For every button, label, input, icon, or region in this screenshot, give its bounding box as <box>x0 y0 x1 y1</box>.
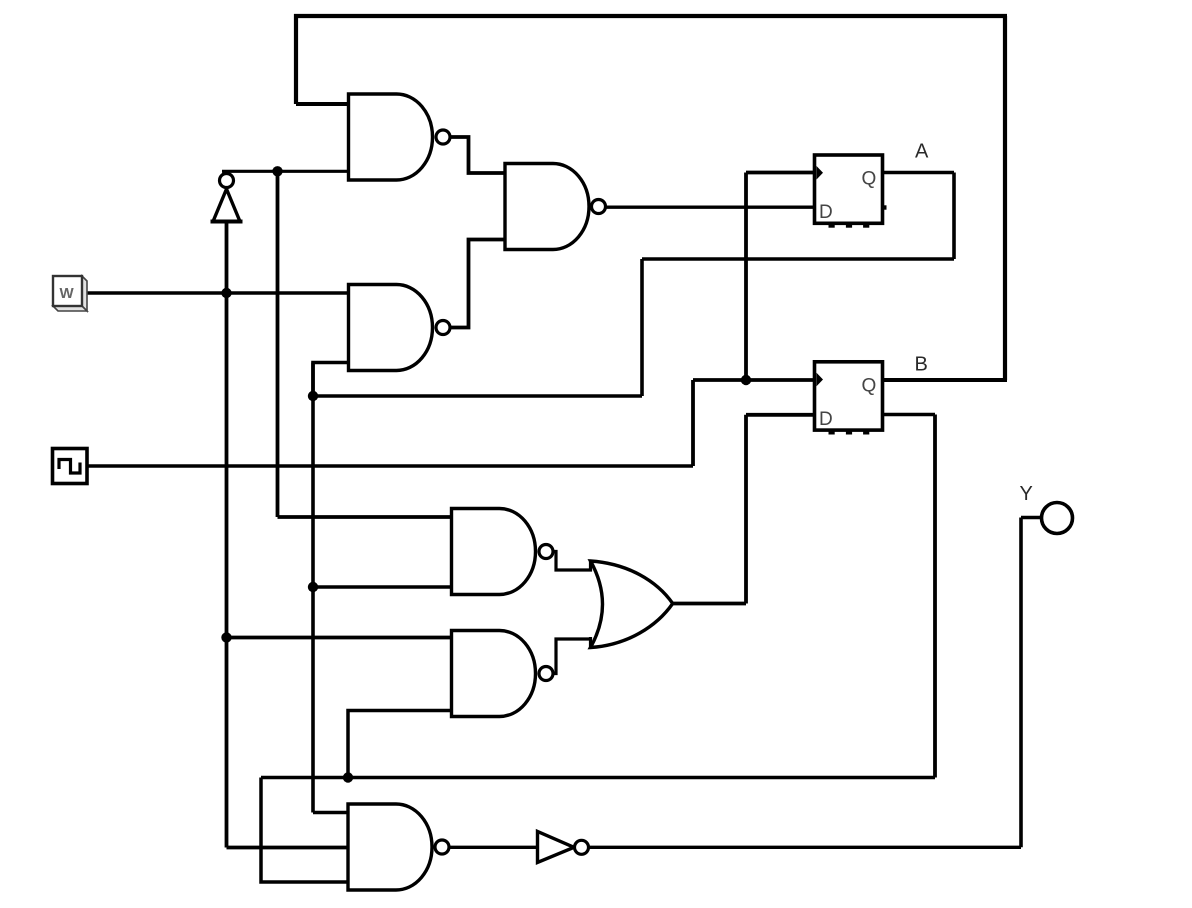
label A <box>915 141 929 163</box>
output bubble of inverter U8 <box>575 840 589 854</box>
wire: net A into NAND G6 top input <box>313 811 350 815</box>
wire: NAND G4 output to OR G7 top input <box>551 552 592 571</box>
wire: NAND G5 output to OR G7 bottom input <box>551 639 592 674</box>
svg-text:Q: Q <box>862 375 877 396</box>
wire: inverter U7 output (NOT W) to NAND G1 bottom input <box>222 170 351 173</box>
wire: net A horizontal run at y=259 <box>642 257 954 261</box>
inverter U7 <box>211 189 243 222</box>
svg-text:B: B <box>915 354 928 376</box>
wire: inverter U8 output run to Y <box>586 846 1021 849</box>
wire: clock vertical to A flip-flop <box>744 173 748 381</box>
or-gate G7 bottom input stub <box>589 637 592 649</box>
wire: NAND G1 output to NAND G2 top input <box>449 137 506 173</box>
wire: net Y stub into output terminal <box>1021 516 1042 520</box>
label Y <box>1020 483 1033 505</box>
wire: NAND G6 output to inverter U8 <box>447 846 539 849</box>
wire: NAND G3 output to NAND G2 bottom input <box>449 240 506 328</box>
junction: W tap to NAND G5 <box>221 632 231 642</box>
nand-gate G4 <box>452 509 536 595</box>
or-gate G7 top input stub <box>589 560 592 572</box>
junction: NOT-W tap to NAND G4 <box>272 166 282 176</box>
junction: net NOT-B tap to NAND G5 <box>343 772 353 782</box>
input terminal CLK (clock source) <box>53 449 88 484</box>
wire: into B flip-flop D input <box>746 413 816 417</box>
wire: OR G7 output run <box>671 602 746 606</box>
svg-text:D: D <box>819 409 833 430</box>
wire: net NOT-B vertical drop x=935 <box>933 415 937 778</box>
wire: net B.Q feedback, top horizontal run <box>294 14 1007 18</box>
wire: net NOT-B horizontal run y=777.5 <box>261 776 935 780</box>
junction: net A corner tee at x=313 <box>308 391 318 401</box>
wire: clock source horizontal run <box>86 464 693 467</box>
wire: net A vertical drop at x=642 <box>640 259 644 396</box>
flip-flop FFB (D flip-flop B) <box>815 362 883 435</box>
wire: NOT-W into NAND G4 top input <box>278 515 454 519</box>
wire: W into NAND G6 middle input <box>227 846 351 850</box>
output bubble of inverter U7 <box>220 174 234 188</box>
wire: net NOT-B drop into NAND G6 bottom input <box>261 778 350 883</box>
output bubble of G4 <box>539 545 553 559</box>
svg-text:W: W <box>60 285 75 302</box>
wire: net B.Q feedback into NAND G1 top input <box>296 102 351 106</box>
svg-text:A: A <box>915 141 929 163</box>
wire: net A vertical trunk x=313 <box>311 363 315 813</box>
output bubble of G2 <box>592 200 606 214</box>
input terminal W <box>53 276 87 311</box>
wire: W vertical trunk (inverter U7 input down to NAND G6) <box>225 222 229 848</box>
wire: clock riser at x=693 <box>691 380 695 466</box>
inverter U8 <box>538 832 575 863</box>
junction: W tap to vertical trunk <box>221 288 231 298</box>
nand-gate G3 <box>349 285 433 371</box>
wire: net A vertical drop at x=954 <box>952 173 956 260</box>
label B <box>915 354 928 376</box>
nand-gate G1 <box>349 94 433 180</box>
wire: NOT-W vertical drop to NAND G4 <box>276 171 280 517</box>
flip-flop FFA (D flip-flop A) <box>815 155 887 228</box>
output bubble of G3 <box>436 321 450 335</box>
wire: net A into NAND G3 bottom input <box>313 363 351 397</box>
nand-gate G6 <box>348 804 432 890</box>
wire: B flip-flop Qbar output run <box>882 413 935 417</box>
wire: net B.Q feedback, right vertical riser <box>1003 16 1007 380</box>
wire: B flip-flop Q output run <box>882 378 1007 382</box>
wire: W into NAND G5 top input <box>227 636 454 640</box>
svg-text:D: D <box>819 202 833 223</box>
output bubble of G1 <box>436 130 450 144</box>
svg-text:Q: Q <box>862 169 877 190</box>
wire: net A horizontal run at y=396 <box>313 394 642 398</box>
output bubble of G5 <box>539 667 553 681</box>
svg-text:Y: Y <box>1020 483 1033 505</box>
junction: clock tee to A flip-flop <box>741 375 751 385</box>
wire: net A into NAND G4 bottom input <box>313 585 453 589</box>
nand-gate G2 <box>505 164 589 250</box>
nand-gate G5 <box>452 631 536 717</box>
wire: net B.Q feedback, left vertical drop <box>294 14 298 104</box>
wire: clock into B flip-flop CLK input <box>693 378 816 382</box>
output bubble of G6 <box>435 840 449 854</box>
junction: net A tap to NAND G4 <box>308 582 318 592</box>
wire: OR G7 output riser to B.D <box>744 415 748 604</box>
or-gate G7 <box>591 561 673 648</box>
wire: net NOT-B riser into NAND G5 bottom input <box>348 711 453 778</box>
wire: input W to NAND G3 top input <box>80 291 351 294</box>
wire: clock into A flip-flop CLK input <box>746 171 816 175</box>
output terminal Y <box>1042 503 1073 534</box>
wire: net Y riser at x=1021 <box>1019 518 1023 848</box>
wire: NAND G2 output to A flip-flop D input <box>604 205 816 208</box>
wire: A flip-flop Q output run <box>882 171 954 175</box>
